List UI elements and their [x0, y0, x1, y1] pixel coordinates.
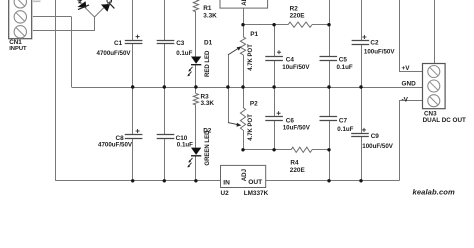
svg-text:C5: C5 [339, 57, 348, 64]
svg-text:-V: -V [402, 96, 409, 103]
svg-text:0.1uF: 0.1uF [337, 126, 353, 133]
svg-text:GND: GND [402, 80, 417, 87]
svg-text:IN: IN [223, 179, 230, 186]
svg-text:RED LED: RED LED [205, 50, 211, 77]
svg-text:0.1uF: 0.1uF [177, 142, 193, 149]
svg-text:P1: P1 [250, 31, 258, 38]
svg-text:U2: U2 [221, 190, 230, 197]
svg-text:OUT: OUT [248, 179, 262, 186]
svg-text:ADJ: ADJ [241, 0, 248, 6]
svg-text:DUAL DC OUT: DUAL DC OUT [423, 117, 466, 124]
svg-text:220E: 220E [290, 12, 306, 19]
svg-text:C9: C9 [371, 133, 380, 140]
svg-text:10uF/50V: 10uF/50V [282, 64, 310, 71]
svg-text:+V: +V [402, 65, 411, 72]
svg-text:3.3K: 3.3K [203, 13, 217, 20]
svg-text:R1: R1 [203, 5, 212, 12]
svg-text:C2: C2 [370, 40, 379, 47]
svg-text:3.3K: 3.3K [201, 100, 215, 107]
svg-text:4.7K POT: 4.7K POT [248, 44, 254, 71]
svg-text:0.1uF: 0.1uF [337, 64, 353, 71]
svg-text:10uF/50V: 10uF/50V [283, 125, 311, 132]
svg-text:4700uF/50V: 4700uF/50V [97, 50, 132, 57]
svg-text:C7: C7 [339, 117, 348, 124]
svg-text:4.7K POT: 4.7K POT [248, 114, 254, 141]
svg-text:100uF/50V: 100uF/50V [362, 143, 393, 150]
svg-text:GREEN LED: GREEN LED [205, 130, 211, 166]
svg-text:4700uF/50V: 4700uF/50V [98, 142, 133, 149]
svg-text:INPUT: INPUT [9, 46, 27, 52]
svg-text:ADJ: ADJ [241, 168, 248, 181]
svg-text:C3: C3 [176, 40, 185, 47]
svg-text:100uF/50V: 100uF/50V [364, 48, 395, 55]
svg-text:220E: 220E [290, 167, 306, 174]
svg-text:R4: R4 [290, 160, 299, 167]
svg-text:C4: C4 [286, 57, 295, 64]
svg-text:0.1uF: 0.1uF [176, 50, 192, 57]
svg-text:CN1: CN1 [9, 39, 22, 46]
svg-text:C6: C6 [286, 117, 295, 124]
svg-text:D1: D1 [204, 39, 213, 46]
svg-text:LM337K: LM337K [244, 190, 269, 197]
svg-text:P2: P2 [250, 101, 258, 108]
svg-text:kealab.com: kealab.com [413, 187, 456, 196]
svg-text:C1: C1 [114, 40, 123, 47]
